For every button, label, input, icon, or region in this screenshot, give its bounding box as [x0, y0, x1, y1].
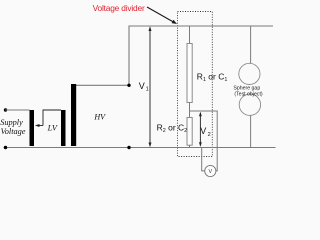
wire R2 bottom stub — [189, 145, 191, 147]
sphere gap upper sphere — [239, 63, 260, 84]
svg-text:(Test object): (Test object) — [234, 91, 263, 97]
wire sphere gap bottom — [250, 115, 252, 147]
wire R1 bottom — [189, 103, 191, 112]
wire left riser — [128, 26, 130, 86]
voltmeter V — [205, 165, 216, 176]
wire to R1 top — [189, 26, 191, 44]
svg-text:Supply: Supply — [0, 118, 23, 127]
wire bottom rail — [4, 147, 276, 149]
V1 measurement arrow — [149, 26, 152, 147]
V2 measurement arrow — [199, 112, 202, 147]
wire HV output — [76, 84, 130, 86]
transformer LV winding bar 2 — [61, 110, 66, 146]
transformer HV winding bar — [71, 84, 76, 146]
node supply top terminal — [4, 108, 7, 111]
wire supply top — [6, 109, 30, 111]
svg-text:HV: HV — [93, 113, 106, 122]
svg-text:R2 or C2: R2 or C2 — [157, 122, 188, 134]
annotation arrow to divider box — [147, 7, 177, 24]
svg-text:Voltage divider: Voltage divider — [93, 3, 145, 13]
svg-text:Voltage: Voltage — [1, 127, 26, 136]
svg-text:V: V — [208, 169, 212, 175]
transformer LV winding bar 1 — [30, 110, 35, 146]
wire R2 top stub — [189, 111, 191, 118]
wire voltmeter left — [202, 148, 205, 171]
sphere gap lower sphere — [239, 94, 260, 115]
wire sphere gap top — [250, 26, 252, 64]
node HV junction — [127, 84, 130, 87]
svg-text:R1 or C1: R1 or C1 — [197, 71, 228, 83]
voltage divider dashed box — [178, 12, 213, 157]
node supply bottom terminal — [4, 146, 7, 149]
LV leader line — [35, 110, 61, 127]
wire top rail — [129, 25, 273, 27]
svg-text:LV: LV — [47, 124, 58, 133]
resistor R1 — [187, 44, 192, 103]
node bottom rail junction — [127, 146, 130, 149]
wire tap to voltmeter — [190, 111, 218, 171]
resistor R2 — [187, 118, 192, 146]
